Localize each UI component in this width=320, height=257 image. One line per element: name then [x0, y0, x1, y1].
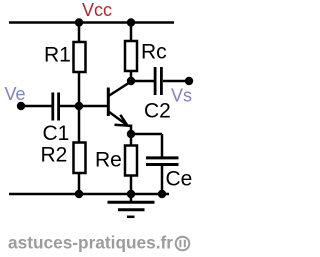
svg-text:R1: R1 — [44, 44, 71, 67]
svg-text:Re: Re — [95, 149, 122, 172]
svg-text:Vs: Vs — [171, 86, 192, 106]
svg-text:R2: R2 — [41, 144, 68, 167]
svg-text:C2: C2 — [144, 100, 171, 123]
svg-text:C1: C1 — [43, 122, 70, 145]
svg-text:Rc: Rc — [141, 41, 167, 64]
svg-text:Vcc: Vcc — [82, 0, 112, 20]
svg-text:astuces-pratiques.fr: astuces-pratiques.fr — [8, 232, 173, 252]
svg-text:Ve: Ve — [5, 84, 26, 104]
svg-text:Ce: Ce — [166, 168, 193, 191]
